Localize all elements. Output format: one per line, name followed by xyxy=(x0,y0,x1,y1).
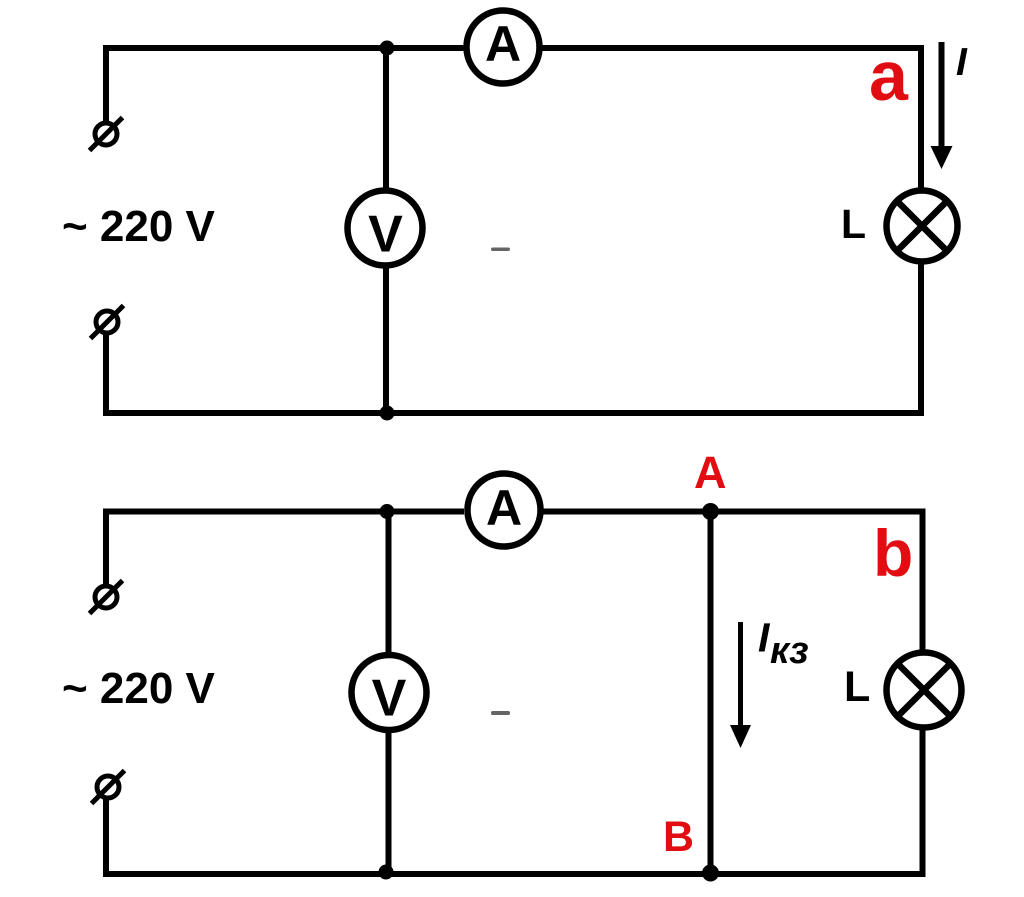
wire: left vertical + top wire to ammeter (circuit b) xyxy=(106,512,464,587)
current arrow I (circuit a) xyxy=(931,42,953,169)
watermark dash (circuit a) xyxy=(491,248,510,252)
svg-text:b: b xyxy=(873,516,913,590)
wire: right vertical below lamp + bottom wire (circuit b) xyxy=(103,727,923,874)
wire: voltmeter branch lower (circuit a) xyxy=(383,265,389,413)
voltmeter V (circuit a) xyxy=(348,191,423,266)
terminal lower (circuit b) xyxy=(92,771,125,804)
svg-text:B: B xyxy=(663,813,694,861)
junction dot node B (circuit b) xyxy=(702,865,719,882)
wire: top wire from ammeter to top-right corner + right vertical to lamp (circuit a) xyxy=(543,48,922,191)
wire: voltmeter branch lower (circuit b) xyxy=(386,730,392,874)
svg-text:A: A xyxy=(486,480,522,536)
svg-text:A: A xyxy=(485,16,521,72)
wire: voltmeter branch upper (circuit a) xyxy=(383,48,389,192)
voltmeter V (circuit b) xyxy=(352,655,427,730)
wire: top wire from ammeter to top-right corner + right vertical to lamp (circuit b) xyxy=(544,512,923,654)
svg-text:~ 220 V: ~ 220 V xyxy=(62,664,216,713)
ammeter A (circuit a) xyxy=(467,11,540,84)
junction dot top (circuit a) xyxy=(380,41,395,56)
wire: left vertical below lower terminal (circuit a) xyxy=(103,334,109,413)
svg-text:A: A xyxy=(694,447,727,498)
wire: voltmeter branch upper (circuit b) xyxy=(386,512,392,657)
junction dot bottom-left (circuit b) xyxy=(379,865,394,880)
terminal lower (circuit a) xyxy=(91,306,124,339)
terminal upper (circuit a) xyxy=(90,118,123,151)
wire: left vertical below lower terminal (circuit b) xyxy=(103,798,109,874)
wire: right vertical below lamp + bottom wire (circuit a) xyxy=(103,261,921,413)
svg-text:V: V xyxy=(368,206,403,264)
junction dot bottom (circuit a) xyxy=(380,406,395,421)
terminal upper (circuit b) xyxy=(90,581,123,614)
junction dot node A (circuit b) xyxy=(702,503,719,520)
watermark dash (circuit b) xyxy=(491,711,510,715)
svg-text:a: a xyxy=(869,37,909,115)
svg-text:~ 220 V: ~ 220 V xyxy=(62,202,216,251)
junction dot top-left (circuit b) xyxy=(380,504,395,519)
wire: left vertical + top wire to ammeter (circuit a) xyxy=(106,48,464,124)
lamp L (circuit b) xyxy=(887,653,962,728)
svg-text:кз: кз xyxy=(770,630,809,672)
ammeter A (circuit b) xyxy=(468,474,541,547)
svg-text:I: I xyxy=(956,41,968,84)
svg-text:V: V xyxy=(372,670,407,728)
lamp L (circuit a) xyxy=(887,191,958,262)
wire: short-circuit branch A-B (circuit b) xyxy=(708,512,714,875)
current arrow Ikz (circuit b) xyxy=(730,622,751,748)
svg-text:L: L xyxy=(841,201,866,247)
svg-text:L: L xyxy=(844,663,870,711)
